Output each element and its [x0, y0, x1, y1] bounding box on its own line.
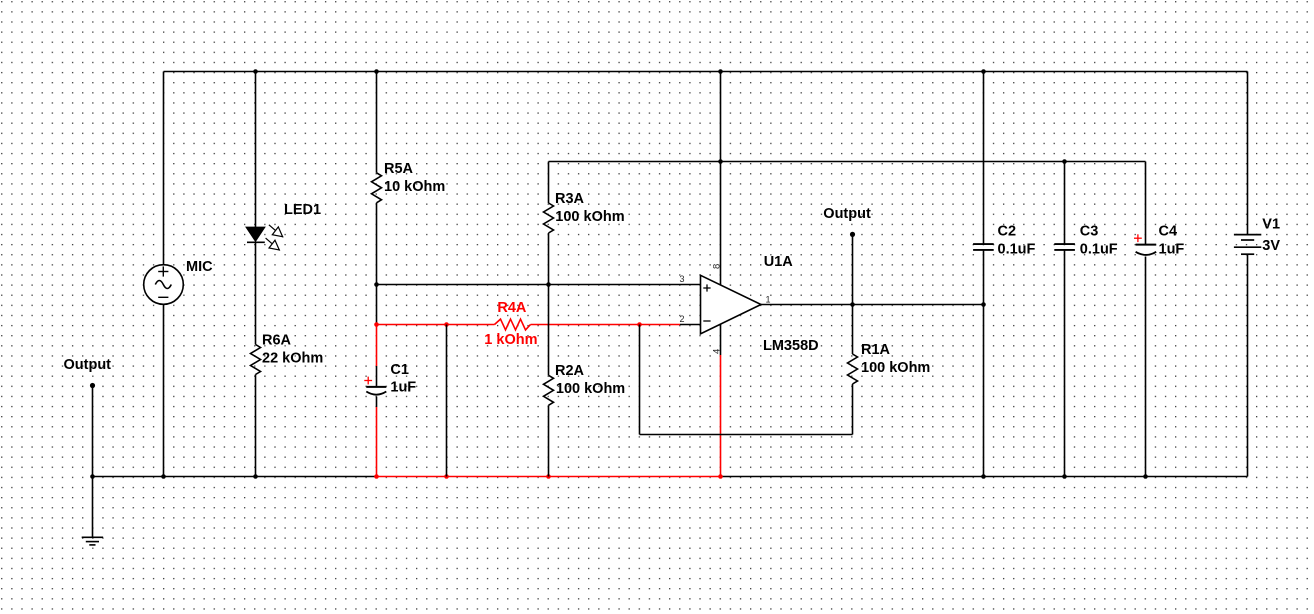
- node: output / C2 junction: [981, 302, 986, 307]
- svg-text:V1: V1: [1262, 217, 1280, 233]
- wire: C4 down to ground rail: [1145, 257, 1147, 477]
- svg-text:LM358D: LM358D: [763, 338, 819, 354]
- wire: feed line down to C3: [1064, 162, 1066, 245]
- svg-text:8: 8: [711, 264, 722, 269]
- node: ground rail / R6A: [253, 474, 258, 479]
- wire: V1 down to ground rail: [1247, 254, 1249, 476]
- node: R5A / pin3 wire junction: [374, 282, 379, 287]
- node: ground rail / C1 (red): [374, 474, 379, 479]
- wire: top rail to LED1 anode: [255, 72, 257, 228]
- node: ground rail / output branch corner: [90, 474, 95, 479]
- wire: R5A to non-inverting node: [376, 203, 378, 285]
- node: output probe dot (right): [850, 232, 855, 237]
- svg-text:0.1uF: 0.1uF: [1080, 242, 1118, 258]
- node: ground rail / R2A (red): [546, 474, 551, 479]
- wire: output junction down to R1A: [852, 305, 854, 355]
- svg-text:C4: C4: [1159, 224, 1178, 240]
- wire: pin3 junction down to R2A: [548, 285, 550, 376]
- resistor R6A: [251, 345, 261, 375]
- resistor R5A: [372, 173, 382, 203]
- svg-text:R3A: R3A: [555, 191, 585, 207]
- svg-text:R2A: R2A: [555, 363, 585, 379]
- resistor R2A: [544, 375, 554, 405]
- wire: C1 to ground rail (red): [376, 407, 378, 477]
- svg-text:R4A: R4A: [497, 300, 527, 316]
- svg-text:U1A: U1A: [764, 254, 794, 270]
- node: ground rail / C2: [981, 474, 986, 479]
- wire: top rail down to C2: [983, 72, 985, 245]
- ground: [82, 537, 103, 545]
- svg-text:C3: C3: [1080, 224, 1099, 240]
- battery V1: [1234, 235, 1261, 255]
- svg-text:R5A: R5A: [384, 161, 414, 177]
- svg-text:100 kOhm: 100 kOhm: [555, 209, 624, 225]
- wire: C2 down to ground rail: [983, 250, 985, 477]
- node: pin3 wire / R3A-R2A junction: [546, 282, 551, 287]
- capacitor C1 (polarized): [364, 377, 386, 395]
- node: top rail / LED1 branch: [253, 69, 258, 74]
- wire: LED1 cathode to R6A: [255, 242, 257, 344]
- svg-text:100 kOhm: 100 kOhm: [556, 381, 625, 397]
- wire: R4A node to ground rail: [446, 325, 448, 477]
- node: feed line / pin 8 junction: [718, 159, 723, 164]
- wire: pin 4 to ground rail (red): [720, 355, 722, 477]
- wire: ground stub: [92, 477, 94, 538]
- wire: R6A to ground rail: [255, 375, 257, 477]
- wire: C3 down to ground rail: [1064, 250, 1066, 477]
- wire: C1 top pin stub: [376, 366, 378, 386]
- svg-text:0.1uF: 0.1uF: [998, 242, 1036, 258]
- wire: feedback up to inverting node: [639, 325, 641, 435]
- wire: top rail corner down to V1: [1247, 72, 1249, 235]
- svg-text:C2: C2: [998, 224, 1017, 240]
- wire: C1 bottom pin stub: [376, 397, 378, 408]
- wire: MIC top to rail: [163, 72, 165, 265]
- svg-text:1: 1: [766, 295, 771, 305]
- node: output probe dot (left): [90, 383, 95, 388]
- svg-text:10 kOhm: 10 kOhm: [384, 179, 445, 195]
- wire: feed line corner down to C4: [1145, 162, 1147, 245]
- capacitor C3: [1054, 244, 1075, 250]
- node: R4A net / feedback tap (red): [637, 322, 642, 327]
- LED LED1: [246, 225, 283, 251]
- node: ground rail / C3: [1062, 474, 1067, 479]
- wire: non-inverting input (pin 3): [377, 284, 701, 286]
- node: feed line / C3 junction: [1062, 159, 1067, 164]
- resistor R4A (red): [495, 319, 531, 330]
- svg-text:Output: Output: [64, 357, 112, 373]
- wire: R2A to ground rail: [548, 405, 550, 476]
- svg-text:100 kOhm: 100 kOhm: [861, 360, 930, 376]
- svg-text:C1: C1: [390, 362, 409, 378]
- wire: op-amp output (pin 1): [761, 304, 984, 306]
- wire: ground rail middle segment (red): [377, 476, 721, 478]
- wire: bypass feed line: [549, 161, 1146, 163]
- svg-text:2: 2: [679, 314, 684, 324]
- op-amp U1A (LM358D): [701, 275, 762, 334]
- svg-text:MIC: MIC: [186, 259, 213, 275]
- svg-text:3: 3: [679, 274, 684, 284]
- source MIC (AC microphone source): [144, 265, 184, 305]
- wire: R4A node down to C1 (red): [376, 325, 378, 367]
- node: R4A left node (red): [374, 322, 379, 327]
- svg-text:Output: Output: [823, 206, 871, 222]
- svg-text:1uF: 1uF: [390, 380, 416, 396]
- svg-text:R6A: R6A: [262, 333, 292, 349]
- svg-text:22 kOhm: 22 kOhm: [262, 351, 323, 367]
- svg-text:R1A: R1A: [861, 342, 891, 358]
- svg-text:1 kOhm: 1 kOhm: [484, 332, 537, 348]
- node: ground rail / R4A leg (red): [444, 474, 449, 479]
- wire: R1A to feedback run: [852, 384, 854, 435]
- node: ground rail / C4: [1143, 474, 1148, 479]
- svg-text:1uF: 1uF: [1159, 242, 1185, 258]
- wire: top rail to R5A: [376, 72, 378, 173]
- svg-text:LED1: LED1: [284, 202, 321, 218]
- wire: ground rail left segment: [93, 476, 377, 478]
- wire: ground rail right segment: [721, 476, 1248, 478]
- wire: MIC bottom to ground rail: [163, 304, 165, 476]
- node: output / R1A junction: [850, 302, 855, 307]
- wire: feedback bottom run: [640, 434, 853, 436]
- node: R4A net / ground leg (red): [444, 322, 449, 327]
- resistor R3A: [544, 203, 554, 233]
- wire: top V+ rail: [164, 71, 1248, 73]
- wire: junction down to R4A node: [376, 285, 378, 325]
- capacitor C2: [973, 244, 994, 250]
- wire: output probe to ground rail: [92, 386, 94, 477]
- node: ground rail / op-amp pin 4 (red): [718, 474, 723, 479]
- wire: R3A to pin3 junction: [548, 233, 550, 285]
- wire: R4A right segment to inverting input (red): [531, 324, 681, 326]
- node: top rail / R5A branch: [374, 69, 379, 74]
- wire: pin 4 stub: [720, 324, 722, 355]
- wire: R4A left segment (red): [377, 324, 495, 326]
- svg-text:3V: 3V: [1262, 238, 1280, 254]
- capacitor C4 (polarized): [1134, 234, 1156, 255]
- wire: pin 8 supply wire: [720, 72, 722, 286]
- wire: feed line down to R3A: [548, 162, 550, 204]
- node: top rail / op-amp pin 8 branch: [718, 69, 723, 74]
- node: ground rail / MIC: [161, 474, 166, 479]
- node: top rail / C2 branch: [981, 69, 986, 74]
- wire: output probe to output wire: [852, 234, 854, 304]
- wire: inverting input stub (pin 2): [680, 324, 701, 326]
- resistor R1A: [848, 354, 858, 384]
